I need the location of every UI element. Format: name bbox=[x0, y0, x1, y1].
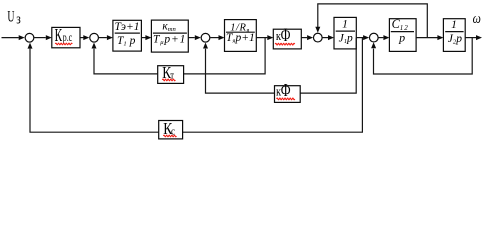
wire Кт to S2 bottom bbox=[94, 49, 158, 74]
svg-text:Тяp+1: Тяp+1 bbox=[226, 32, 255, 45]
wire кФ2 feedback tap down bbox=[300, 38, 356, 94]
wire top feedback М12 to S4 bbox=[318, 4, 428, 38]
block Кт current feedback bbox=[158, 66, 184, 84]
node Uз input label bbox=[7, 7, 20, 27]
block (1/Rя)/(Тяp+1) armature bbox=[225, 20, 257, 52]
block Крс regulator bbox=[52, 27, 80, 47]
wire С12/p to 1/J2p, node tap top feedback bbox=[416, 37, 437, 39]
svg-text:p: p bbox=[398, 30, 405, 44]
summing junction S3 bbox=[201, 33, 210, 42]
block ктп/(Тμp+1) converter bbox=[151, 20, 188, 52]
wire 1/J1p to S5, taps for кФ2 and Кс bbox=[356, 37, 363, 39]
svg-text:Ф: Ф bbox=[281, 26, 291, 46]
summing junction S4 bbox=[313, 33, 322, 42]
svg-text:Тэ+1: Тэ+1 bbox=[115, 21, 140, 33]
svg-text:ω: ω bbox=[473, 10, 481, 27]
block С12/p elastic coupling bbox=[389, 19, 416, 52]
wire омега2 feedback to S5 bottom bbox=[374, 38, 473, 74]
wire Крс to S2 bbox=[80, 37, 84, 39]
wire output omega bbox=[465, 37, 476, 39]
svg-text:Тμp+1: Тμp+1 bbox=[153, 33, 186, 46]
wire ктп block to S3 bbox=[188, 37, 195, 39]
wire S3 to armature block bbox=[210, 37, 218, 39]
summing junction S2 bbox=[90, 33, 99, 42]
block кФ1 torque constant bbox=[273, 29, 301, 49]
wire S2 to block Тэ bbox=[99, 37, 107, 39]
node omega output label bbox=[473, 10, 481, 27]
block 1/(J2p) second mass bbox=[443, 19, 465, 52]
wire Кт feedback tap down bbox=[184, 38, 266, 74]
summing junction S5 bbox=[369, 33, 378, 42]
wire armature block to кФ1, node tap Кт bbox=[256, 37, 267, 39]
wire Кс to S1 bottom bbox=[30, 49, 159, 133]
wire Кс feedback tap down bbox=[183, 38, 363, 133]
wire кФ1 to S4 bbox=[301, 37, 307, 39]
svg-text:1: 1 bbox=[451, 19, 457, 31]
wire кФ2 to S3 bottom bbox=[206, 49, 275, 93]
svg-text:р.с: р.с bbox=[63, 31, 73, 44]
svg-text:з: з bbox=[16, 10, 21, 27]
svg-text:1: 1 bbox=[342, 19, 348, 31]
block кФ2 emf feedback bbox=[275, 86, 301, 103]
wire Тэ block to ктп block bbox=[141, 37, 145, 39]
svg-text:U: U bbox=[7, 7, 14, 25]
wire S1 to Крс bbox=[34, 37, 46, 39]
svg-text:т: т bbox=[170, 71, 174, 82]
svg-text:Т1 p: Т1 p bbox=[117, 35, 136, 48]
block Кс speed feedback bbox=[159, 121, 183, 139]
block 1/(J1p) first mass bbox=[334, 17, 356, 49]
wire S5 to С12/p bbox=[379, 37, 384, 39]
wire S4 to 1/J1p bbox=[323, 37, 329, 39]
block (Тэ+1)/(Т1p) bbox=[113, 20, 141, 51]
wire input to S1 bbox=[2, 37, 19, 39]
summing junction S1 bbox=[25, 33, 34, 42]
